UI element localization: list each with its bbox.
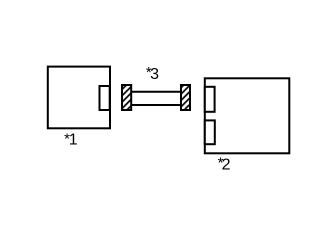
svg-text:1: 1 [69, 131, 78, 148]
svg-text:2: 2 [222, 156, 231, 173]
svg-text:3: 3 [150, 66, 159, 83]
